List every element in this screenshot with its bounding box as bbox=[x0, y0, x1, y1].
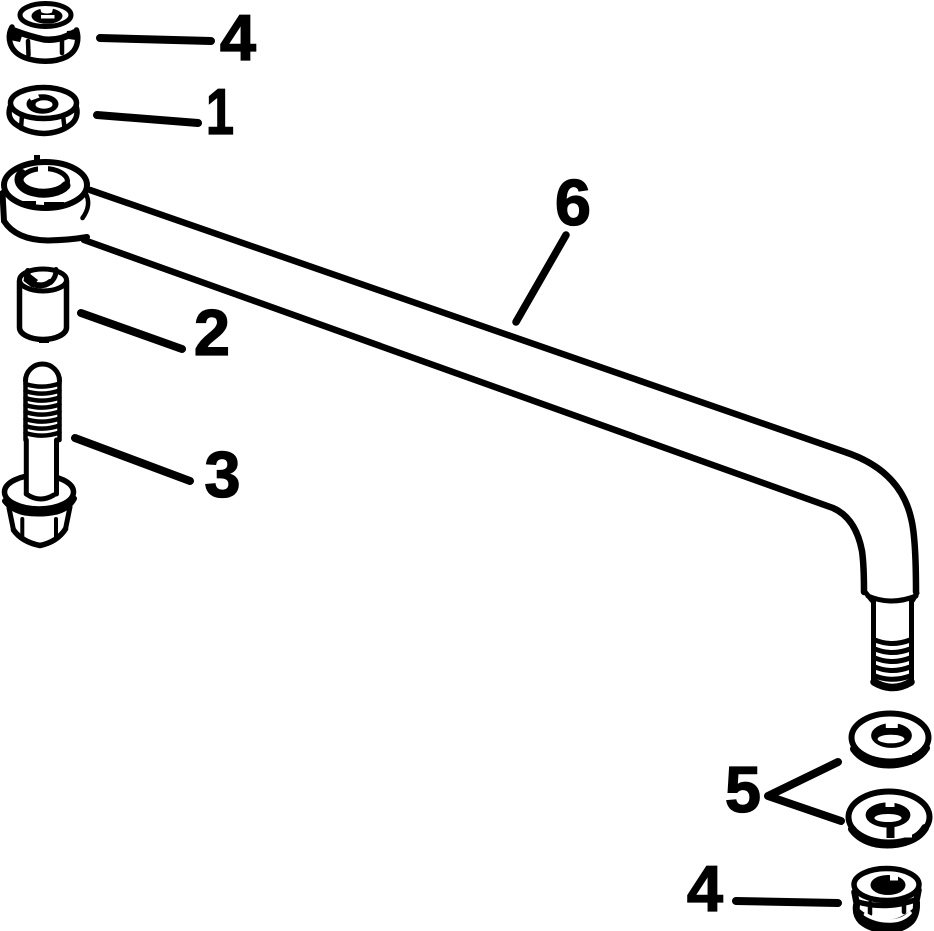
flange bolt item 3: shank bottom edge bbox=[26, 494, 54, 499]
flange bolt item 3: flange bbox=[5, 475, 74, 509]
washer item 5 (lower) bbox=[849, 792, 930, 845]
flange bolt item 3: threaded end bbox=[26, 364, 60, 440]
flange bolt item 3: flange underside bbox=[5, 499, 74, 514]
hex nut item 1: centre hole bbox=[27, 93, 59, 114]
steering link item 6: threaded stud bbox=[866, 593, 917, 688]
spacer bushing item 2 bbox=[20, 269, 67, 343]
leader line to label 3 bbox=[75, 438, 190, 481]
leader line to label 6 bbox=[516, 235, 566, 322]
svg-text:6: 6 bbox=[555, 166, 591, 239]
hex nut item 1: top face bbox=[11, 88, 77, 119]
svg-text:1: 1 bbox=[206, 76, 234, 148]
flange bolt item 3: plain shank bbox=[26, 440, 56, 494]
locknut item 4 (top left): hex body bbox=[9, 27, 78, 61]
locknut item 4 (top left): top face bbox=[20, 4, 71, 27]
leader arms for label 5 bbox=[768, 762, 841, 821]
svg-text:3: 3 bbox=[204, 438, 240, 511]
hex nut item 1: body bbox=[9, 104, 77, 134]
steering link item 6: bar body fill bbox=[86, 188, 918, 594]
locknut item 4 (top left): nylon insert bbox=[32, 7, 63, 24]
steering link item 6: bar lower edge bbox=[84, 240, 864, 592]
flange bolt item 3: hex body bbox=[9, 507, 70, 546]
leader line to label 4 (bottom) bbox=[736, 901, 838, 903]
leader line to label 4 (top) bbox=[100, 38, 211, 41]
steering link item 6: eye end bbox=[3, 155, 89, 241]
washer item 5 (upper) bbox=[852, 714, 929, 765]
flange locknut item 4 (bottom right): hex and flange bbox=[855, 890, 919, 931]
svg-text:2: 2 bbox=[194, 296, 230, 369]
steering link item 6: bar upper edge bbox=[90, 190, 916, 592]
leader line to label 1 bbox=[97, 115, 198, 123]
svg-text:5: 5 bbox=[725, 753, 761, 826]
steering link item 6: bottom shoulder bbox=[868, 596, 916, 601]
leader line to label 2 bbox=[81, 313, 182, 349]
svg-text:4: 4 bbox=[220, 1, 256, 74]
svg-text:4: 4 bbox=[687, 852, 723, 925]
flange locknut item 4 (bottom right): top face bbox=[854, 869, 919, 901]
